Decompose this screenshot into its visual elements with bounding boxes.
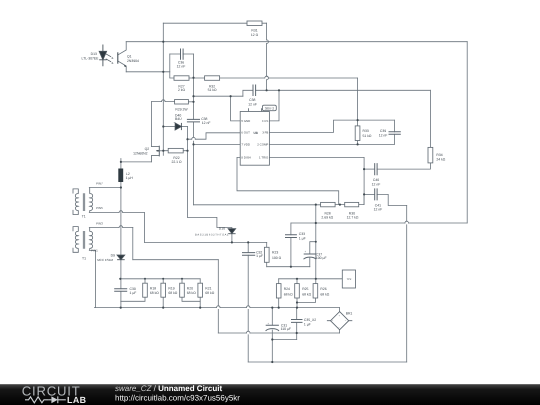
- wire R22 leads: [163, 150, 187, 152]
- svg-text:1 μF: 1 μF: [256, 254, 263, 258]
- wire D10 anode jog: [188, 217, 232, 228]
- resistor R28: [321, 202, 336, 206]
- svg-text:3 FB: 3 FB: [262, 131, 268, 135]
- op-amp U8 IC body: [240, 112, 269, 166]
- svg-text:D10: D10: [219, 227, 225, 231]
- svg-text:12N60N2: 12N60N2: [133, 152, 147, 156]
- wire R34 bottom lead: [377, 163, 431, 169]
- resistor R29: [175, 100, 189, 105]
- svg-text:68 kΩ: 68 kΩ: [320, 293, 329, 297]
- capacitor C37 plates (polarized): [304, 254, 317, 259]
- svg-text:12 nF: 12 nF: [202, 121, 211, 125]
- wire R29 right lead: [188, 101, 193, 103]
- svg-text:2.69 kΩ: 2.69 kΩ: [321, 216, 333, 220]
- wire PIN3 branch down x132.8: [132, 228, 134, 260]
- wire R23 leads: [266, 242, 268, 266]
- wire C33 column: [290, 223, 292, 267]
- wire hop y333 over x248.2: [246, 331, 250, 333]
- svg-text:1 TRIG: 1 TRIG: [259, 156, 269, 160]
- wire Q1 emitter: [118, 61, 126, 72]
- wire D10 cathode lead: [231, 234, 233, 243]
- wire vertical x218.3: [217, 260, 219, 333]
- wire R18 column: [121, 279, 145, 302]
- wire C41 right branch: [377, 194, 407, 205]
- svg-text:T1: T1: [82, 257, 86, 261]
- wire top rail y277.8: [120, 278, 200, 280]
- wire hop PIN3 over x120.9: [119, 226, 123, 228]
- wire DISCH pin branch: [237, 157, 339, 204]
- wire R19 column: [162, 279, 164, 308]
- svg-text:51 kΩ: 51 kΩ: [208, 88, 217, 92]
- wire C31-C35 link y339.5: [272, 339, 296, 341]
- svg-text:1 μH: 1 μH: [126, 176, 134, 180]
- wire C35 right lead long y90.3: [256, 89, 431, 91]
- svg-text:2 COMP: 2 COMP: [257, 143, 268, 147]
- svg-text:R24: R24: [284, 287, 290, 291]
- svg-text:T1: T1: [82, 215, 86, 219]
- labels PIN7 PIN5 PIN3 PIN1: [91, 182, 103, 253]
- wire C36 leads: [170, 53, 194, 55]
- wire OUT pin to node: [188, 133, 241, 139]
- resistor R22: [168, 148, 183, 153]
- wire y242.4 supply row: [144, 241, 266, 243]
- wire FB pin branch: [269, 120, 357, 132]
- svg-text:sware_CZ / Unnamed Circuit: sware_CZ / Unnamed Circuit: [115, 384, 222, 393]
- wire right mid vertical x406.7: [406, 206, 408, 363]
- svg-text:BR1: BR1: [346, 311, 353, 315]
- resistor R30: [345, 202, 359, 206]
- wire C36-R27 loop left edge: [169, 54, 171, 78]
- wire C35_X2 column: [296, 308, 298, 340]
- capacitor C33 plates: [285, 235, 297, 238]
- wire hop PIN5 over x120.9: [119, 211, 123, 213]
- svg-text:PIN7: PIN7: [96, 182, 103, 186]
- wire left main vertical x120.9 (L2/D9/C30 column): [120, 159, 122, 308]
- U8 pin labels: [241, 119, 269, 160]
- svg-text:12 nF: 12 nF: [177, 65, 186, 69]
- svg-text:TP2: TP2: [347, 278, 352, 281]
- svg-text:LTL-307EE: LTL-307EE: [82, 56, 100, 60]
- svg-text:2 kΩ: 2 kΩ: [178, 88, 186, 92]
- svg-text:R30: R30: [349, 211, 355, 215]
- wire R31 branch vertical: [266, 23, 268, 90]
- wire hop rail over x218.3: [217, 306, 221, 308]
- svg-text:5 GND: 5 GND: [241, 119, 250, 123]
- resistor R31: [247, 21, 262, 26]
- wire jog up to y90.3: [243, 90, 253, 96]
- svg-text:C40: C40: [373, 178, 379, 182]
- svg-text:12 nF: 12 nF: [379, 133, 388, 137]
- svg-text:PIN1: PIN1: [91, 248, 98, 252]
- svg-text:C35_X2: C35_X2: [304, 318, 316, 322]
- transformer T1 upper: [73, 188, 93, 215]
- wire vertical x187.5 diode-R22: [187, 127, 189, 218]
- wire inner right vertical x430.4 to R34: [429, 90, 431, 147]
- wire D-B4U anode lead: [163, 126, 175, 128]
- svg-text:1 μF: 1 μF: [130, 291, 137, 295]
- svg-text:R29 2W: R29 2W: [175, 108, 188, 112]
- svg-text:R33: R33: [363, 129, 369, 133]
- svg-text:Q2: Q2: [145, 147, 150, 151]
- wire R20 column: [182, 279, 200, 302]
- svg-text:R28: R28: [324, 211, 330, 215]
- svg-text:8 DISH: 8 DISH: [241, 156, 250, 160]
- wire hop rail over x248.2: [246, 306, 250, 308]
- resistor R18: [143, 283, 148, 297]
- wire C31 column: [271, 308, 273, 362]
- wire hop R31-branch over y78: [267, 76, 269, 80]
- svg-text:C39: C39: [380, 129, 386, 133]
- svg-text:1 μF: 1 μF: [299, 236, 306, 240]
- wire bottom loop y362: [248, 361, 407, 363]
- wire GND pin branch: [231, 96, 241, 121]
- svg-text:12 nF: 12 nF: [248, 103, 257, 107]
- svg-text:LAB: LAB: [67, 395, 86, 405]
- wire C37 bottom lead: [309, 258, 311, 267]
- resistor R23: [264, 247, 269, 262]
- wire TRIG branch vertical x364.1: [363, 157, 365, 204]
- svg-text:12.7 kΩ: 12.7 kΩ: [347, 216, 359, 220]
- svg-text:D9: D9: [111, 253, 115, 257]
- transistor Q2 MOSFET: [151, 146, 163, 163]
- svg-text:Q1: Q1: [127, 55, 132, 59]
- wire y333 to BR1 bottom: [218, 332, 339, 334]
- diode D9: [117, 255, 125, 260]
- wire main vertical x163.3: [162, 23, 164, 155]
- capacitor C35_X2 plates: [291, 320, 303, 323]
- wire R21 column: [199, 279, 201, 308]
- svg-text:12 Ω: 12 Ω: [251, 33, 259, 37]
- wire R25 column: [296, 279, 298, 308]
- logo resistor-diode glyph: [25, 396, 66, 403]
- svg-text:68 kΩ: 68 kΩ: [187, 291, 196, 295]
- resistor R27: [174, 76, 189, 81]
- svg-text:http://circuitlab.com/c93x7us5: http://circuitlab.com/c93x7us56y5kr: [115, 393, 240, 402]
- wire R24 column: [278, 279, 280, 308]
- wire C40 left lead: [364, 168, 374, 170]
- svg-text:2N3904: 2N3904: [127, 59, 139, 63]
- wire R33 loop feed vertical x357.5: [357, 78, 359, 120]
- wire C41 left lead: [364, 193, 374, 195]
- wire C32 column: [247, 242, 249, 362]
- wire R29 left lead from Q2 drain column: [151, 101, 174, 103]
- svg-text:6 OUT: 6 OUT: [241, 131, 250, 135]
- svg-text:68 kΩ: 68 kΩ: [168, 291, 177, 295]
- wire Q1 collector: [118, 42, 126, 55]
- capacitor C31 plates (polarized): [266, 325, 279, 331]
- svg-text:68 kΩ: 68 kΩ: [150, 291, 159, 295]
- wire node row y96.2: [194, 95, 243, 97]
- capacitor C40 plates: [375, 163, 377, 175]
- wire R32 row leads: [194, 77, 358, 79]
- opto arrows D13 to Q1: [106, 54, 111, 57]
- resistor R34: [428, 147, 433, 163]
- transformer T1 lower: [73, 227, 93, 253]
- wire y259.7 row: [133, 259, 219, 261]
- wire Q2 gate feed from L2 node: [121, 161, 151, 163]
- resistor R21: [198, 283, 203, 297]
- svg-text:R23: R23: [272, 251, 278, 255]
- wire CS pin branch: [269, 90, 279, 121]
- wire bottom rail y307.9: [94, 307, 339, 309]
- svg-text:12 nF: 12 nF: [372, 182, 381, 186]
- resistor R32: [205, 76, 220, 81]
- svg-text:68 kΩ: 68 kΩ: [302, 293, 311, 297]
- resistor R26: [313, 284, 318, 298]
- wire D-B4U cathode lead: [181, 126, 187, 128]
- LED D13: [102, 45, 104, 67]
- wire emitter row y71.8: [126, 71, 170, 73]
- wire PIN5 branch down x144.4: [143, 213, 145, 243]
- svg-text:12 nF: 12 nF: [374, 208, 383, 212]
- wire hop R31-branch over y41.7: [267, 40, 269, 44]
- svg-text:3807-2: 3807-2: [265, 106, 275, 110]
- wire PIN3 row: [89, 227, 133, 229]
- svg-text:BAS21B632THTSA1: BAS21B632THTSA1: [195, 234, 229, 237]
- svg-text:R25: R25: [302, 287, 308, 291]
- wire TP2 lead: [316, 278, 343, 280]
- wire hop R32-row over x266.6 (drawn on branch): [265, 76, 269, 78]
- wire R24-R25 top loop to x315.8: [279, 278, 316, 280]
- capacitor C36 plates: [181, 49, 184, 60]
- diode D10: [228, 229, 235, 234]
- capacitor C30 plates: [114, 289, 127, 292]
- wire C39 vertical leads: [393, 120, 395, 144]
- svg-text:PIN5: PIN5: [96, 206, 103, 210]
- wire top rail to R31: [163, 22, 266, 24]
- svg-text:B4U: B4U: [175, 117, 182, 121]
- wire hop OUT-wire over x193.5: [192, 137, 196, 139]
- wire vertical x315.8: [315, 205, 317, 284]
- resistor R25: [295, 284, 300, 298]
- label box 3807-2: [262, 105, 276, 111]
- wire R27 row leads: [170, 77, 194, 79]
- test point TP2 box: [342, 270, 355, 288]
- svg-text:1 μF: 1 μF: [304, 323, 311, 327]
- resistor R19: [161, 283, 166, 297]
- wire BR1 top stub: [339, 308, 341, 312]
- wire long horizontal y41.7: [126, 41, 467, 43]
- wire R26 bottom loop: [297, 298, 315, 303]
- capacitor C38 plates (near diode): [187, 119, 200, 122]
- svg-text:68 kΩ: 68 kΩ: [205, 291, 214, 295]
- capacitor C41 plates: [375, 188, 377, 200]
- wire R23 bottom row: [267, 266, 310, 268]
- svg-text:100 Ω: 100 Ω: [272, 256, 282, 260]
- svg-text:100 μF: 100 μF: [316, 256, 327, 260]
- wire hop R29-lead over main vertical: [162, 100, 166, 102]
- svg-text:7 VDD: 7 VDD: [241, 143, 250, 147]
- transistor Q1: [117, 52, 119, 63]
- wire PIN7 row: [89, 187, 121, 189]
- svg-text:110 μF: 110 μF: [281, 327, 291, 331]
- wire VDD pin row left: [194, 143, 241, 145]
- wire PIN1 lead and drop: [89, 250, 95, 307]
- svg-text:+: +: [305, 249, 307, 253]
- wire TRIG row right: [269, 156, 364, 158]
- wire C37 top jog: [310, 242, 316, 254]
- wire hop y223 over x406.7: [405, 221, 409, 223]
- svg-text:51 kΩ: 51 kΩ: [363, 134, 372, 138]
- svg-text:MCC ES1M: MCC ES1M: [97, 258, 113, 262]
- capacitor C38 plates (above U8): [253, 85, 256, 97]
- wire PIN5 row: [89, 212, 144, 214]
- diode B4U: [175, 123, 181, 130]
- inductor L2 body: [118, 169, 123, 183]
- svg-text:68 kΩ: 68 kΩ: [284, 293, 293, 297]
- wire BR1 bottom stub: [339, 330, 341, 333]
- resistor R24: [276, 284, 281, 298]
- svg-text:4 CS: 4 CS: [262, 119, 268, 123]
- resistor R33: [355, 126, 360, 141]
- svg-text:U8: U8: [254, 131, 258, 135]
- wire outer right vertical: [466, 42, 468, 223]
- capacitor C32 plates: [242, 253, 255, 256]
- wire R33-C39 loop top: [358, 119, 395, 121]
- wire COMP row right: [269, 143, 394, 145]
- capacitor C39 plates: [389, 132, 401, 135]
- resistor R20: [180, 283, 185, 297]
- wire vertical x193.5 (C38 column): [193, 54, 195, 205]
- wire y223 from C33 to outer right: [291, 222, 467, 224]
- svg-text:R26: R26: [320, 287, 326, 291]
- svg-text:24 kΩ: 24 kΩ: [436, 157, 445, 161]
- wire R33 vertical leads: [357, 120, 359, 144]
- svg-text:PIN3: PIN3: [96, 222, 103, 226]
- wire Q2 drain vertical: [150, 102, 152, 147]
- bridge rectifier BR1: [327, 312, 352, 330]
- svg-text:22.1 Ω: 22.1 Ω: [171, 160, 182, 164]
- wire R28-R30 row: [194, 194, 365, 204]
